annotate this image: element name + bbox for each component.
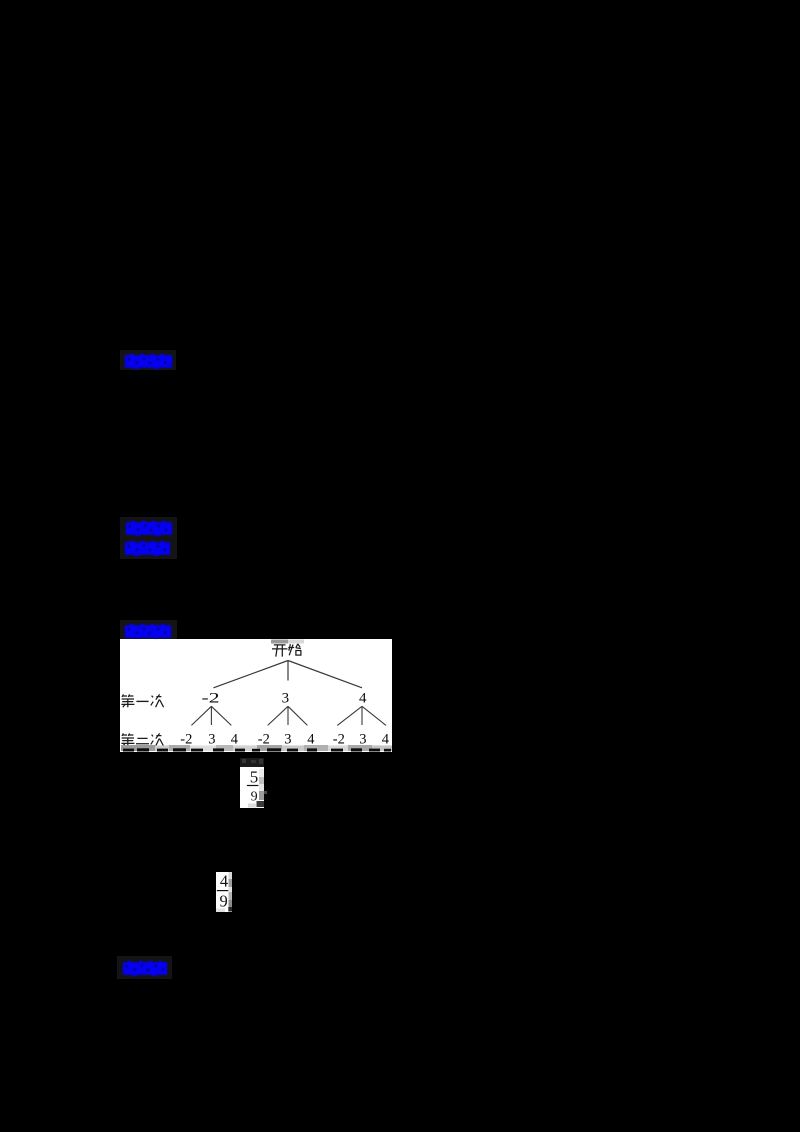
bottom cut-off glyph band xyxy=(121,745,392,752)
svg-text:9: 9 xyxy=(220,892,228,911)
gray right column artifacts xyxy=(259,769,264,777)
svg-text:3: 3 xyxy=(208,732,215,748)
次 xyxy=(151,694,164,707)
第 xyxy=(121,733,134,746)
branch lines from 开始 xyxy=(214,661,363,688)
text 开始 xyxy=(272,644,301,657)
二 xyxy=(136,738,149,743)
blue label 4 (【解答】) xyxy=(124,623,172,640)
blue label 3 (【解析】) xyxy=(124,540,171,557)
sub-fan under 3 xyxy=(268,706,308,725)
blue label 2 (【答案】) xyxy=(125,520,173,537)
svg-text:4: 4 xyxy=(382,732,390,748)
一 xyxy=(136,700,148,702)
fraction bar xyxy=(217,890,229,891)
始 xyxy=(288,644,301,655)
dark halo behind label 1 xyxy=(120,350,176,370)
dark halo behind labels 2-3 xyxy=(120,517,177,559)
第 xyxy=(121,694,134,707)
text 第一次 xyxy=(121,694,163,707)
svg-text:5: 5 xyxy=(250,768,258,787)
svg-text:-2: -2 xyxy=(202,690,220,706)
sub-fan under 4 xyxy=(337,706,386,725)
svg-text:4: 4 xyxy=(220,872,228,890)
svg-text:3: 3 xyxy=(282,690,290,706)
fraction bar xyxy=(247,785,259,786)
text 第二次 xyxy=(121,733,163,746)
开 xyxy=(272,645,287,657)
faint mark right of 5/9 xyxy=(264,791,267,794)
blue label 5 (【点评】) xyxy=(122,960,168,977)
svg-text:3: 3 xyxy=(284,732,291,748)
svg-text:4: 4 xyxy=(359,690,367,706)
fraction image 4/9 xyxy=(216,872,232,912)
sub-fan under -2 xyxy=(191,706,231,725)
faint dark text remnants above fraction 5/9 xyxy=(240,758,264,767)
white background of diagram xyxy=(120,639,392,752)
fraction image 5/9 xyxy=(240,767,264,808)
svg-text:9: 9 xyxy=(251,790,258,805)
blue label 1 (【分析】) xyxy=(124,353,173,370)
gray smudge above 开始 xyxy=(271,640,288,644)
次 xyxy=(151,733,164,746)
svg-text:-2: -2 xyxy=(333,732,345,748)
first row nodes xyxy=(202,690,368,706)
black glyph tops at the very bottom edge xyxy=(123,748,391,751)
tree diagram image (white box) xyxy=(120,639,392,752)
dark halo behind label 4 xyxy=(120,620,177,639)
dark halo behind label 5 xyxy=(117,956,172,979)
second row nodes xyxy=(180,732,389,748)
